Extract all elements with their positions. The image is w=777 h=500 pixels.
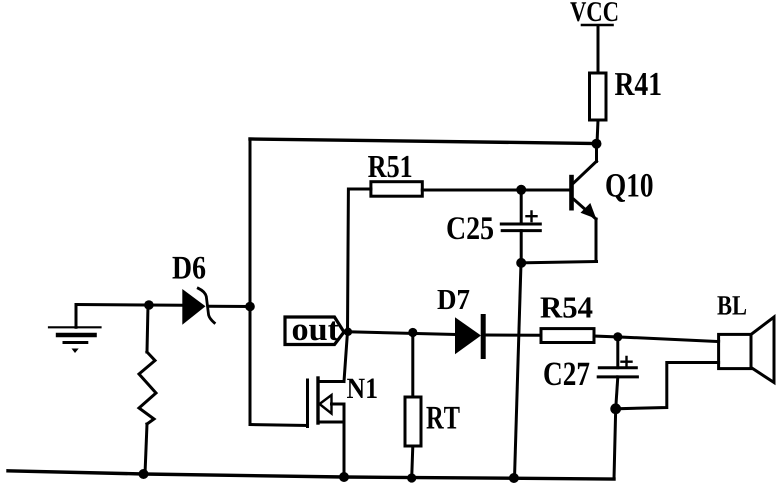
wire R54 to node: [594, 335, 618, 339]
node D (divider tap): [144, 300, 154, 310]
mosfet N1: [308, 332, 348, 477]
wire gate from left vertical: [250, 425, 308, 426]
node M (C27 bottom): [610, 403, 621, 414]
resistor RT: [405, 397, 421, 446]
node F (rail/divider): [139, 469, 149, 479]
capacitor C25: [501, 190, 540, 263]
diode D6 (zener): [182, 288, 214, 324]
resistor R51: [371, 182, 422, 197]
label C27: [544, 363, 589, 386]
node I (rail/emitter line): [509, 473, 519, 483]
node B (base/C25 top): [516, 185, 526, 195]
label RT: [426, 407, 459, 429]
wire left vertical: [249, 139, 252, 425]
ground: [49, 305, 101, 354]
label R51: [368, 156, 411, 177]
speaker BL: [719, 317, 774, 383]
wire C25 node down to bottom rail: [515, 263, 522, 478]
capacitor C27: [598, 337, 637, 409]
resistor R41: [590, 73, 607, 120]
node G (rail/N1 source): [339, 472, 349, 482]
wire RT bottom: [412, 446, 413, 478]
node A (R41/collector/top rail): [592, 139, 602, 149]
wire R41 to node: [597, 120, 598, 144]
transistor Q10: [569, 144, 596, 262]
wire R51 right to base: [422, 189, 569, 192]
diode D7: [455, 314, 486, 359]
wire bottom rail: [8, 471, 614, 479]
wire R51 left to vertical: [348, 189, 371, 332]
label R54: [541, 297, 593, 317]
wire D7 to R54: [486, 334, 541, 337]
label C25: [447, 217, 493, 239]
wire VCC to R41: [597, 27, 600, 73]
wire emitter to C25 bottom: [521, 262, 596, 263]
node H (rail/RT): [407, 473, 416, 482]
wire RT top: [411, 333, 414, 398]
node E (D6 on left vertical): [245, 302, 255, 312]
tag out: [285, 317, 344, 345]
wire rail end up to C27 bottom: [614, 409, 616, 479]
resistor R (unlabeled zigzag): [139, 305, 156, 474]
label N1: [347, 379, 377, 399]
wire out to D7: [348, 332, 455, 335]
node K (RT top): [408, 328, 417, 337]
wire top rail: [250, 139, 597, 144]
label D7: [438, 290, 470, 309]
label Q10: [606, 174, 652, 202]
node L (R54/C27/speaker): [613, 332, 622, 341]
net label VCC: [570, 2, 617, 25]
resistor R54: [541, 329, 594, 343]
wire C27 bottom to speaker (step): [616, 363, 719, 409]
label D6: [173, 257, 206, 279]
node C (C25 bottom/emitter): [516, 258, 526, 268]
wire node to speaker: [618, 337, 719, 342]
wire ground to D6: [76, 303, 182, 307]
wire D6 to left vertical: [209, 305, 250, 308]
label R41: [615, 73, 661, 95]
node J (out tip): [344, 328, 352, 336]
label BL: [717, 296, 746, 314]
